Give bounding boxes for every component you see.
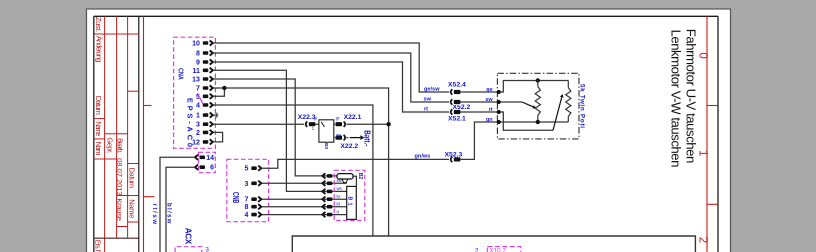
svg-text:rt/sw: rt/sw <box>151 204 157 225</box>
svg-text:3: 3 <box>244 181 248 188</box>
svg-text:B2: B2 <box>357 173 363 180</box>
svg-text:14: 14 <box>206 155 214 162</box>
svg-text:7: 7 <box>196 86 200 93</box>
svg-text:br: br <box>337 194 341 199</box>
svg-text:8: 8 <box>196 51 200 58</box>
svg-text:5: 5 <box>244 166 248 173</box>
svg-text:X22.2: X22.2 <box>340 143 358 150</box>
svg-text:rt: rt <box>489 107 493 113</box>
svg-text:gn/ws: gn/ws <box>415 153 431 159</box>
svg-text:Norm: Norm <box>94 142 103 156</box>
svg-text:Krause: Krause <box>115 198 124 221</box>
svg-text:11: 11 <box>192 68 200 75</box>
svg-text:9: 9 <box>196 60 200 67</box>
svg-text:5k Twin Poti: 5k Twin Poti <box>578 84 585 128</box>
svg-text:Batt.-: Batt.- <box>363 130 372 147</box>
svg-text:13: 13 <box>192 77 200 84</box>
svg-text:Ers. f: Ers. f <box>93 240 100 252</box>
svg-text:sw: sw <box>485 97 493 103</box>
svg-text:gn: gn <box>486 117 493 123</box>
svg-text:8: 8 <box>244 204 248 211</box>
svg-text:Name: Name <box>128 199 137 218</box>
svg-text:08.07.2013: 08.07.2013 <box>115 158 124 196</box>
svg-text:2: 2 <box>697 237 709 243</box>
svg-text:CNA: CNA <box>176 68 185 80</box>
svg-text:gr: gr <box>314 115 318 120</box>
svg-text:4: 4 <box>196 103 200 110</box>
svg-text:Fahrmotor U-V tauschen: Fahrmotor U-V tauschen <box>684 29 699 164</box>
svg-text:sw: sw <box>424 96 432 102</box>
svg-text:X10.2: X10.2 <box>490 247 507 252</box>
svg-text:2: 2 <box>196 130 200 137</box>
svg-text:ge: ge <box>486 87 492 93</box>
svg-text:ws: ws <box>337 186 342 191</box>
svg-text:CNB: CNB <box>231 192 240 204</box>
svg-text:Gepr.: Gepr. <box>105 137 114 153</box>
svg-text:X52.1: X52.1 <box>448 115 466 122</box>
svg-text:Lenkmotor V-W tauschen: Lenkmotor V-W tauschen <box>668 30 683 168</box>
svg-text:X22.1: X22.1 <box>344 114 362 121</box>
svg-text:1: 1 <box>196 113 200 120</box>
svg-text:10: 10 <box>192 41 200 48</box>
svg-text:gr: gr <box>336 115 340 120</box>
svg-text:X52.4: X52.4 <box>448 81 466 88</box>
svg-text:bl: bl <box>337 202 340 207</box>
svg-text:2: 2 <box>475 248 479 252</box>
svg-text:Zust.: Zust. <box>94 17 103 32</box>
svg-text:12: 12 <box>192 139 200 146</box>
svg-text:6: 6 <box>210 165 214 172</box>
svg-text:3: 3 <box>196 122 200 129</box>
svg-text:Name: Name <box>94 121 103 136</box>
svg-text:bl/sw: bl/sw <box>165 203 171 224</box>
svg-text:7: 7 <box>244 197 248 204</box>
svg-text:Bearb.: Bearb. <box>116 138 125 153</box>
svg-text:B3: B3 <box>323 143 329 149</box>
svg-text:4: 4 <box>244 212 248 219</box>
svg-text:Datum: Datum <box>128 168 137 189</box>
svg-text:ACX: ACX <box>183 228 192 245</box>
svg-text:ge/sw: ge/sw <box>424 86 440 92</box>
svg-text:Datum: Datum <box>94 96 103 115</box>
svg-text:Änderung: Änderung <box>94 36 103 63</box>
svg-text:rt: rt <box>424 106 428 112</box>
svg-text:ws: ws <box>336 132 341 137</box>
